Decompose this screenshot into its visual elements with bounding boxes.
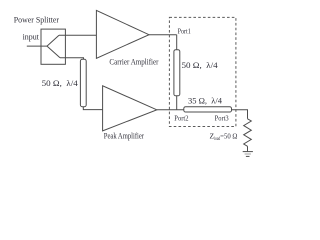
wire: TL3 output (Port3) to load resistor	[232, 110, 248, 119]
wire: TL2 bottom to Port2 node	[176, 96, 178, 110]
wire: splitter upper output to carrier amplifier	[59, 34, 96, 36]
svg-text:Port2: Port2	[174, 114, 188, 123]
resistor Zload (zigzag)	[244, 119, 252, 147]
svg-text:input: input	[23, 33, 40, 42]
node Port1 / stub into vertical line	[176, 35, 178, 50]
wire: carrier amplifier output to Port1	[149, 34, 177, 36]
wire: resistor to ground	[247, 146, 249, 151]
svg-text:Peak Amplifier: Peak Amplifier	[104, 132, 144, 141]
svg-text:50 Ω, λ/4: 50 Ω, λ/4	[42, 79, 78, 88]
wire: splitter lower output to TL1	[60, 58, 84, 60]
ground	[243, 152, 253, 157]
svg-text:Power Splitter: Power Splitter	[14, 15, 60, 24]
power splitter fork	[47, 35, 60, 58]
svg-text:Zload=50 Ω: Zload=50 Ω	[210, 132, 238, 142]
svg-text:Port1: Port1	[178, 27, 191, 36]
svg-text:35 Ω, λ/4: 35 Ω, λ/4	[188, 96, 222, 105]
wire: input feed	[27, 45, 47, 47]
dashed network box	[169, 17, 236, 126]
power splitter box	[41, 29, 65, 64]
svg-text:Carrier Amplifier: Carrier Amplifier	[109, 58, 158, 67]
svg-text:Port3: Port3	[215, 114, 229, 123]
svg-text:50 Ω, λ/4: 50 Ω, λ/4	[182, 61, 218, 70]
wire: TL1 bottom to peak amplifier input	[83, 107, 102, 110]
transmission line TL1 50Ω λ/4 (vertical, left)	[80, 59, 86, 106]
carrier amplifier U1	[96, 10, 149, 58]
wire: peak amplifier output to TL3 (through Port2)	[157, 109, 184, 111]
transmission line TL2 50Ω λ/4 (vertical, in box)	[174, 50, 180, 96]
peak amplifier U2	[103, 86, 157, 131]
transmission line TL3 35Ω λ/4 (horizontal)	[184, 107, 232, 112]
